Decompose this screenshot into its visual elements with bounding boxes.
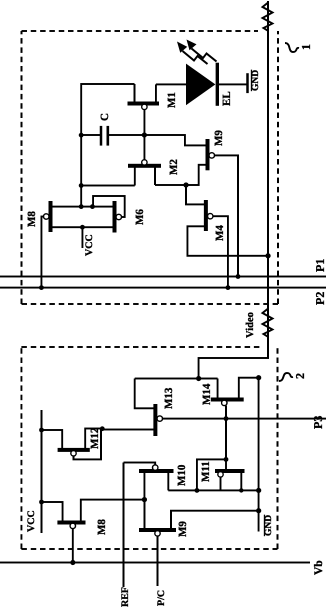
- wire M1 drain to EL anode: [156, 83, 187, 85]
- wire REF line: [123, 463, 125, 588]
- transistor M14: [201, 378, 259, 460]
- transistor M8 box1: [26, 201, 51, 288]
- svg-text:M8: M8: [96, 519, 108, 535]
- svg-text:M1: M1: [166, 92, 178, 108]
- transistor M12: [42, 427, 103, 459]
- wire Vb vertical rail: [0, 562, 310, 564]
- svg-text:GND: GND: [251, 70, 261, 91]
- node reference numeral 2 with leader: [279, 373, 307, 381]
- wire Video node line into box2: [135, 378, 218, 380]
- transistor M1: [128, 84, 179, 135]
- wire GND net line: [258, 378, 260, 532]
- wire node A to M9 top leg: [144, 135, 207, 145]
- wire VCC rail box1: [81, 84, 134, 207]
- diode EL (electroluminescent element): [186, 63, 248, 106]
- transistor M13: [103, 387, 176, 436]
- svg-text:M6: M6: [134, 209, 146, 225]
- node dot Video entry: [196, 376, 201, 381]
- svg-text:EL: EL: [221, 91, 233, 106]
- svg-text:M14: M14: [201, 383, 213, 405]
- node dot M9 gate on P1: [236, 274, 241, 279]
- wire Video horizontal line with break squiggles: [199, 1, 273, 379]
- node dot M12/M13 drain junction: [100, 426, 105, 431]
- wire VCC stub box1: [81, 227, 83, 248]
- node reference numeral 1 with leader: [285, 43, 313, 52]
- node dot bus on GND line: [256, 488, 261, 493]
- node dot M6 gate tie: [90, 204, 95, 209]
- transistor M8 box2: [42, 500, 145, 563]
- wire P2 vertical line: [0, 287, 326, 289]
- node dot M8 gate on P2: [39, 285, 44, 290]
- transistor M9 box1: [186, 130, 238, 277]
- svg-text:Vb: Vb: [313, 560, 325, 575]
- svg-text:2: 2: [293, 373, 307, 379]
- transistor M6: [93, 196, 146, 233]
- light emission arrows from EL: [177, 40, 217, 65]
- wire mirror source line M8-M6: [51, 226, 115, 228]
- svg-text:P/C: P/C: [156, 590, 167, 606]
- node dot M11 right leg on bus: [239, 488, 243, 492]
- svg-text:VCC: VCC: [84, 234, 95, 256]
- svg-text:1: 1: [299, 44, 313, 50]
- ground GND bar for EL: [248, 70, 262, 93]
- node dot M4 source rail on Video line: [265, 253, 270, 258]
- svg-text:M9: M9: [177, 521, 189, 537]
- capacitor C: [81, 113, 144, 146]
- wire node X to M4: [186, 185, 206, 204]
- wire M2 right leg down to node X: [155, 184, 186, 186]
- svg-text:M11: M11: [200, 461, 212, 482]
- dashed box 1 (pixel circuit): [22, 31, 279, 304]
- node dot rail-cap junction: [79, 133, 84, 138]
- node dot M9 drain on GND line: [256, 508, 261, 513]
- svg-text:M4: M4: [214, 225, 226, 241]
- svg-text:VCC: VCC: [26, 510, 37, 532]
- wire node line to M13 top leg: [135, 379, 156, 409]
- svg-text:P3: P3: [311, 416, 325, 429]
- node dot M8 gate on Vb: [70, 560, 75, 565]
- wire P3 vertical line (box2): [163, 418, 326, 420]
- svg-text:Video: Video: [245, 312, 256, 338]
- node dot VCC stub junction: [80, 225, 85, 230]
- wire M10-M9 source link: [143, 471, 145, 530]
- wire mirror gate/drain line M8-M6: [51, 206, 115, 208]
- node dot loop on bus: [195, 488, 200, 493]
- node dot M11 diode node: [224, 457, 229, 462]
- node dot rail-M2 junction: [79, 183, 84, 188]
- svg-text:M10: M10: [176, 464, 188, 486]
- svg-text:M12: M12: [89, 427, 101, 449]
- transistor M2: [128, 135, 180, 186]
- wire M2 left leg up to VCC rail: [81, 185, 135, 187]
- node dot M4 gate on P2: [226, 285, 231, 290]
- svg-text:M9: M9: [213, 130, 225, 146]
- node dot M8 source on VCC: [39, 500, 44, 505]
- node A dot (M1/M2 gate node): [142, 132, 147, 137]
- node dot rail end on mirror line: [79, 204, 84, 209]
- node dot M14 drain on GND line: [256, 375, 261, 380]
- wire VCC line box2: [41, 410, 43, 533]
- wire M10/M11 drain bus to GND dots: [168, 489, 258, 491]
- node X dot: [183, 182, 188, 187]
- wire P1 vertical line: [0, 276, 326, 278]
- node dot M12 source on VCC: [39, 428, 44, 433]
- svg-text:C: C: [99, 113, 111, 121]
- transistor M9 box2: [139, 500, 259, 586]
- transistor M10: [124, 463, 189, 491]
- svg-text:GND: GND: [264, 515, 274, 536]
- svg-text:M13: M13: [163, 387, 175, 409]
- dashed box 2 (driver circuit): [21, 347, 277, 549]
- node dot M8 drain junction: [142, 497, 147, 502]
- svg-text:P1: P1: [313, 259, 326, 272]
- svg-text:M2: M2: [168, 159, 180, 175]
- transistor M11: [197, 459, 245, 490]
- svg-text:M8: M8: [26, 211, 38, 227]
- transistor M4: [187, 200, 268, 288]
- svg-text:P2: P2: [313, 292, 326, 305]
- node dot M14 gate on P3: [224, 416, 229, 421]
- svg-text:REF: REF: [120, 587, 131, 607]
